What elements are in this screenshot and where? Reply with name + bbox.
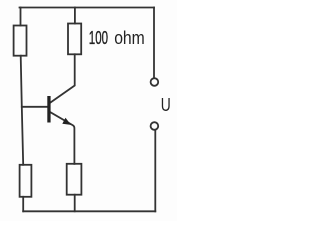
wire resistor R2 top lead (74, 8, 76, 24)
resistor R2 100 ohm (top middle) (68, 24, 81, 55)
wire left rail top (20, 8, 22, 26)
wire top rail (20, 7, 155, 9)
wire right drop to terminal (153, 8, 155, 78)
wire bottom rail (23, 210, 155, 212)
wire left rail middle (21, 56, 24, 165)
resistor R3 (bottom left) (20, 165, 32, 197)
svg-text:ohm: ohm (114, 27, 145, 48)
transistor Q1 base bar (47, 96, 50, 123)
wire left rail bottom (22, 197, 24, 212)
resistor R4 (bottom right) (67, 164, 82, 195)
transistor Q1 emitter arrow (62, 118, 71, 125)
wire right rail bottom (154, 130, 156, 211)
terminal circle bottom (151, 122, 159, 130)
svg-text:100: 100 (89, 27, 108, 48)
wire base lead (22, 106, 47, 108)
wire resistor R4 bottom lead (74, 195, 76, 212)
terminal circle top (151, 78, 159, 86)
wire collector lead (51, 54, 75, 102)
svg-text:U: U (161, 95, 171, 115)
wire emitter lead (51, 112, 75, 164)
resistor R1 (top left) (14, 26, 27, 56)
